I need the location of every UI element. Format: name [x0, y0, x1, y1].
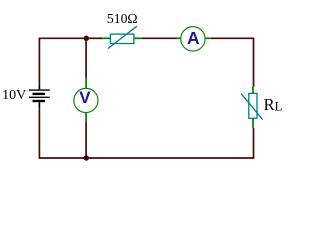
wire: pin right of resistor R1: [134, 37, 142, 39]
wire: RL top pin: [252, 87, 254, 94]
wire: voltmeter top pin: [85, 78, 87, 89]
wire: ammeter left pin: [177, 37, 182, 39]
svg-text:A: A: [187, 28, 200, 48]
svg-text:10V: 10V: [2, 88, 26, 103]
svg-text:510Ω: 510Ω: [107, 11, 138, 26]
node: top junction dot: [84, 36, 89, 41]
wire: top-left corner (battery top to junction): [39, 38, 86, 85]
svg-text:V: V: [79, 88, 91, 107]
battery B1 bottom pin: [38, 102, 40, 108]
ammeter U1 circle: [181, 27, 205, 51]
wire: ammeter right pin: [205, 37, 211, 39]
resistor R1 510 ohm body: [110, 34, 133, 43]
resistor RL adjustment diagonal: [241, 94, 262, 120]
wire: voltmeter to bottom junction: [85, 121, 87, 158]
battery B1 plate short thick 1: [33, 93, 45, 95]
wire: top junction down to voltmeter: [85, 38, 87, 77]
battery B1 top pin: [38, 86, 40, 90]
wire: voltmeter bottom pin: [85, 113, 87, 122]
wire: junction to 510 resistor left pin: [86, 37, 102, 39]
resistor RL body: [249, 93, 257, 118]
voltmeter U2 circle: [74, 88, 98, 112]
battery B1 plate short thick 2: [33, 100, 45, 102]
battery B1 plate long thin 2: [29, 96, 50, 98]
wire: ammeter to top-right corner down to RL top: [211, 38, 254, 87]
battery B1 plate long thin 1: [29, 89, 50, 91]
wire: RL to bottom-right corner and bottom rail to junction: [86, 128, 253, 158]
resistor R1 adjustment diagonal: [108, 26, 137, 48]
wire: RL bottom pin: [252, 118, 254, 128]
wire: resistor R1 to ammeter: [142, 37, 177, 39]
wire: bottom rail junction to bottom-left corner up to battery bottom: [39, 108, 86, 158]
node: bottom junction dot: [84, 155, 89, 160]
wire: pin left of resistor R1: [102, 37, 110, 39]
